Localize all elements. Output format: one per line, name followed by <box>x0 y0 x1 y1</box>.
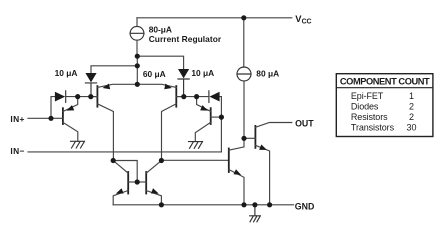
junction mirror right node <box>159 158 164 163</box>
transistor Q6 bar <box>145 172 147 194</box>
transistor Q2 emitter lead <box>137 84 176 87</box>
transistor Q3 collector lead <box>63 122 78 141</box>
diode D2 triangle <box>178 69 189 78</box>
transistor Q2 collector lead <box>162 104 177 161</box>
transistor Q7 emitter arrow <box>234 169 242 175</box>
transistor Q5 base lead <box>128 181 137 183</box>
wire node2 to left diode branch <box>91 66 137 73</box>
transistor Q1 emitter lead <box>97 84 137 87</box>
transistor Q2 bar <box>175 86 177 107</box>
transistor Q8 collector lead to OUT <box>255 123 291 128</box>
svg-text:2: 2 <box>409 112 414 122</box>
component count table box <box>336 74 433 137</box>
diode D2 cathode bar and lead <box>178 79 189 97</box>
diode D4 triangle <box>209 92 219 102</box>
junction IN+ node <box>48 116 53 121</box>
diode D3 triangle <box>55 92 65 102</box>
table header separator <box>336 87 433 89</box>
svg-text:COMPONENT COUNT: COMPONENT COUNT <box>340 76 430 86</box>
transistor Q2 base lead <box>176 96 184 98</box>
svg-text:GND: GND <box>295 201 315 211</box>
junction right emitter node <box>194 94 199 99</box>
junction rail node D <box>267 202 272 207</box>
transistor Q6 collector lead <box>146 161 161 174</box>
transistor Q3 emitter lead <box>63 97 78 112</box>
wire IN- lead <box>28 151 221 153</box>
svg-text:10 μA: 10 μA <box>191 68 214 78</box>
wire node1 to right diode branch <box>137 56 183 69</box>
transistor Q1 emitter arrow <box>103 84 111 90</box>
wire IN+ riser to input diode <box>51 97 55 119</box>
wire regulator top lead <box>136 18 138 27</box>
wire right base bus <box>176 96 209 98</box>
transistor Q5 emitter lead <box>113 191 128 205</box>
svg-text:2: 2 <box>409 102 414 112</box>
junction Q8 base node <box>241 136 246 141</box>
junction rail node A <box>159 202 164 207</box>
transistor Q4 base lead <box>211 116 222 118</box>
svg-text:IN+: IN+ <box>10 114 24 124</box>
svg-text:Epi-FET: Epi-FET <box>351 91 384 101</box>
transistor Q4 emitter lead <box>197 97 211 112</box>
transistor Q4 collector lead <box>195 122 210 141</box>
current source I1 circle <box>237 67 251 81</box>
transistor Q1 collector lead <box>97 104 113 161</box>
svg-text:10 μA: 10 μA <box>55 68 78 78</box>
wire Q7 base bus <box>161 159 228 161</box>
transistor Q3 bar <box>62 108 64 124</box>
ground G2 <box>189 142 203 149</box>
transistor Q6 base lead <box>137 181 146 183</box>
transistor Q6 emitter lead <box>146 191 161 205</box>
wire VCC rail <box>137 17 292 19</box>
wire 80uA source bottom lead <box>243 81 245 138</box>
transistor Q5 emitter arrow <box>116 188 124 193</box>
transistor Q3 emitter arrow <box>67 105 75 111</box>
svg-text:1: 1 <box>409 91 414 101</box>
junction VCC node <box>241 15 246 20</box>
wire IN- riser <box>220 97 222 152</box>
transistor Q8 base lead <box>244 137 255 139</box>
transistor Q4 emitter arrow <box>200 105 208 111</box>
wire IN+ lead <box>28 117 51 119</box>
diode D1 cathode bar and lead <box>85 83 96 97</box>
transistor Q3 base lead <box>51 117 63 119</box>
wire 80uA source top lead <box>243 18 245 67</box>
junction node1 <box>135 54 140 59</box>
ground G3 <box>250 205 261 222</box>
transistor Q1 base lead <box>91 96 98 98</box>
svg-text:Resistors: Resistors <box>351 112 388 122</box>
svg-text:Current Regulator: Current Regulator <box>149 34 222 44</box>
svg-text:60 μA: 60 μA <box>143 69 166 79</box>
transistor Q7 collector lead <box>229 138 244 150</box>
svg-text:30: 30 <box>406 123 416 133</box>
wire ground rail <box>113 204 293 206</box>
transistor Q1 bar <box>96 86 98 107</box>
transistor Q5 collector lead <box>113 161 128 174</box>
wire center tail column <box>136 56 138 84</box>
svg-text:IN−: IN− <box>10 146 24 156</box>
wire mirror jumper <box>113 161 137 183</box>
current regulator CR1 circle <box>130 26 144 40</box>
junction mirror base node <box>135 179 140 184</box>
diode D4 cathode bar <box>208 91 210 103</box>
junction right base node <box>181 94 186 99</box>
transistor Q2 emitter arrow <box>164 84 172 90</box>
junction left base node <box>88 94 93 99</box>
svg-text:Transistors: Transistors <box>351 123 395 133</box>
junction mirror left node <box>111 158 116 163</box>
transistor Q7 bar <box>228 149 230 173</box>
transistor Q4 bar <box>210 108 212 124</box>
svg-text:Diodes: Diodes <box>351 102 379 112</box>
transistor Q6 emitter arrow <box>151 188 159 193</box>
junction IN- node <box>219 115 224 120</box>
transistor Q8 emitter arrow <box>259 145 267 150</box>
svg-text:80 μA: 80 μA <box>256 68 279 78</box>
transistor Q7 emitter lead <box>229 170 244 205</box>
wire left base bus <box>66 96 98 98</box>
ground G1 <box>71 141 85 148</box>
junction left emitter node <box>75 94 80 99</box>
junction rail node B <box>241 202 246 207</box>
transistor Q8 emitter lead <box>255 145 269 205</box>
junction node2 <box>135 63 140 68</box>
junction tail node <box>135 82 140 87</box>
junction rail node C <box>252 202 257 207</box>
diode D3 cathode bar <box>65 91 67 103</box>
wire regulator bottom lead <box>136 40 138 56</box>
diode D1 triangle <box>85 73 96 82</box>
transistor Q5 bar <box>127 172 129 194</box>
svg-text:OUT: OUT <box>295 119 314 129</box>
transistor Q8 bar <box>254 126 256 148</box>
